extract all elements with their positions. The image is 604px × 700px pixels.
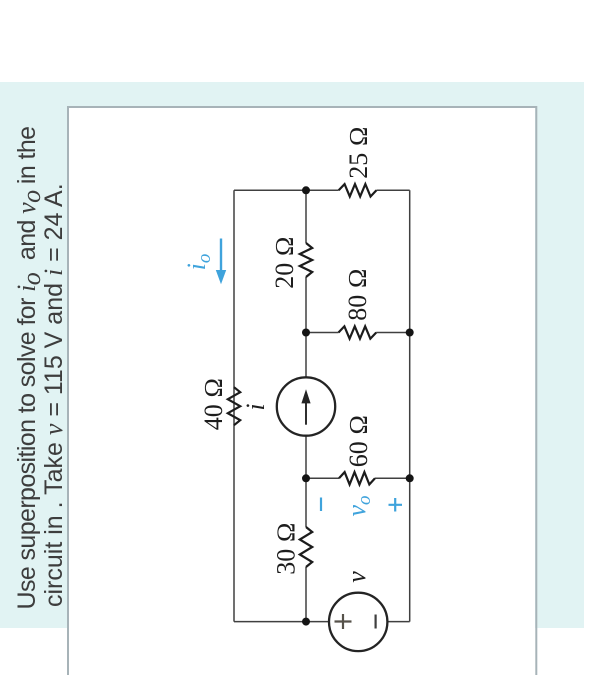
label 25 ohm xyxy=(344,126,373,178)
label 80 ohm xyxy=(343,268,372,320)
wire: right vertical rail xyxy=(409,190,411,621)
wire: middle vertical rail segments xyxy=(305,190,307,621)
svg-text:20 Ω: 20 Ω xyxy=(270,236,299,288)
resistor 40 ohm (vertical, left) xyxy=(228,387,240,425)
node dot 80ohm right xyxy=(406,329,414,337)
image frame box xyxy=(68,107,536,675)
resistor 25 ohm (horizontal, top) xyxy=(339,184,377,196)
svg-text:40 Ω: 40 Ω xyxy=(199,378,228,430)
node dot 80ohm left xyxy=(302,329,310,337)
resistor 60 ohm (horizontal) xyxy=(339,472,375,484)
voltage source circle xyxy=(329,593,387,651)
label i (current source value) xyxy=(241,403,270,410)
wire: 60 ohm branch xyxy=(306,477,410,479)
label vo (blue) xyxy=(342,495,375,516)
voltage source minus (rotated, vertical) xyxy=(375,615,377,629)
node dot bottom middle xyxy=(302,618,310,626)
current source arrow xyxy=(301,389,310,425)
current source circle xyxy=(277,377,335,435)
label 60 ohm xyxy=(344,415,373,467)
svg-text:circuit in . Take v = 115 V an: circuit in . Take v = 115 V and i = 24 A… xyxy=(39,183,68,607)
label v (source value) xyxy=(342,571,371,583)
node dot 60ohm left xyxy=(302,474,310,482)
svg-text:v: v xyxy=(342,571,371,583)
node dot 60ohm right xyxy=(406,474,414,482)
resistor 30 ohm (vertical, middle bottom) xyxy=(300,527,312,567)
voltage source plus xyxy=(335,614,352,629)
label 40 ohm xyxy=(199,378,228,430)
label vo plus sign (blue) xyxy=(389,498,403,512)
svg-text:i: i xyxy=(241,403,270,410)
label vo minus sign (blue) xyxy=(320,498,322,512)
wire: left vertical rail xyxy=(233,190,235,621)
svg-text:60 Ω: 60 Ω xyxy=(344,415,373,467)
problem statement text (rotated) xyxy=(12,127,68,610)
svg-text:80 Ω: 80 Ω xyxy=(343,268,372,320)
resistor 80 ohm (horizontal) xyxy=(339,326,377,338)
wire: top rail with gap for 25ohm xyxy=(234,189,410,191)
label 20 ohm xyxy=(270,236,299,288)
label 30 ohm xyxy=(272,522,301,574)
wire: 80 ohm branch xyxy=(306,332,410,334)
io current arrow (blue) xyxy=(216,239,226,285)
label io (blue) xyxy=(182,254,215,271)
resistor 20 ohm (vertical, middle) xyxy=(300,243,312,277)
svg-text:25 Ω: 25 Ω xyxy=(344,126,373,178)
background panel xyxy=(0,82,584,628)
svg-text:30 Ω: 30 Ω xyxy=(272,522,301,574)
node dot top middle xyxy=(302,186,310,194)
wire: bottom rail with gap for source xyxy=(234,621,410,623)
